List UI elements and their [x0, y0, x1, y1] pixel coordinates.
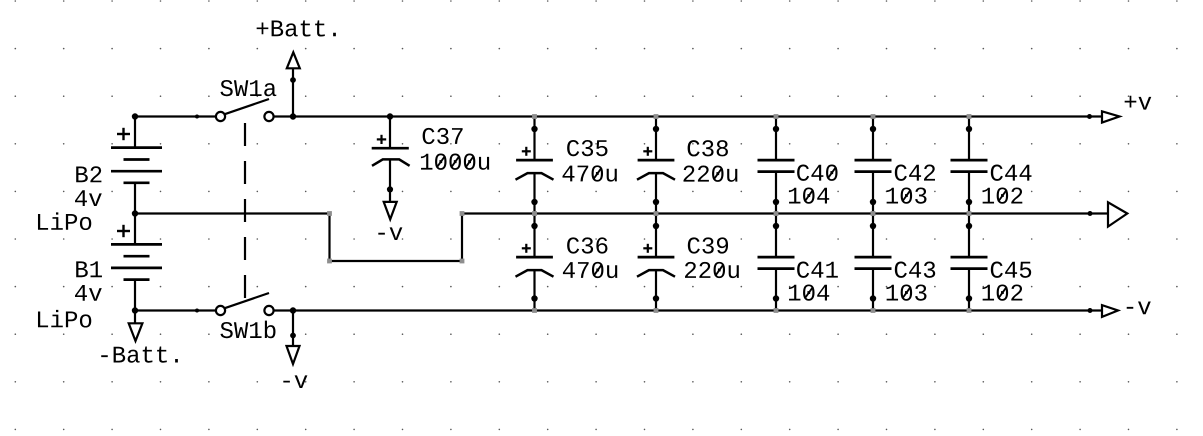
junction -v stub / bottom rail	[290, 307, 296, 313]
label C43	[895, 262, 935, 278]
label 4v (B2)	[75, 190, 102, 206]
junction battery B1 bottom corner	[132, 307, 138, 313]
pin dot C41 top	[773, 223, 779, 229]
value 104 (C40)	[789, 187, 829, 203]
pin dot C45 bottom	[966, 295, 972, 301]
node square C35 top rail	[532, 114, 537, 119]
label C39	[688, 237, 728, 253]
value 1000u	[421, 154, 489, 170]
pin dot C45 top	[966, 223, 972, 229]
node square col C35 mid rail	[532, 211, 537, 216]
label C42	[895, 165, 935, 181]
pin dot C38 bottom	[653, 199, 659, 205]
pin dot C39 bottom	[653, 295, 659, 301]
node square col C38 mid rail	[654, 211, 659, 216]
pin dot C40 top	[773, 126, 779, 132]
value 103 (C43)	[887, 284, 927, 300]
label C36	[567, 237, 607, 253]
label LiPo (B1)	[38, 310, 91, 328]
label C35	[567, 140, 607, 156]
port -v output arrow	[1102, 305, 1118, 317]
node square C39 bottom rail	[654, 308, 659, 313]
capacitor C36	[516, 214, 554, 311]
pin dot C41 bottom	[773, 295, 779, 301]
pin dot C42 top	[870, 126, 876, 132]
pin dot C35 top	[531, 126, 537, 132]
switch SW1b	[216, 293, 274, 315]
label -Batt.	[101, 347, 178, 363]
node square C45 bottom rail	[967, 308, 972, 313]
node dot bottom rail x197	[195, 309, 199, 313]
switch SW1a	[216, 99, 274, 121]
node dot on +Batt stub	[290, 77, 296, 83]
label -v (output)	[1127, 302, 1151, 315]
node square jog corner NE	[460, 211, 465, 216]
label SW1a	[220, 80, 276, 96]
pin dot C36 top	[531, 223, 537, 229]
battery B1	[111, 214, 162, 311]
node square C44 top rail	[967, 114, 972, 119]
pin dot C43 bottom	[870, 295, 876, 301]
label C45	[991, 262, 1031, 278]
wire: bottom rail left segment (battery B1 - to SW1b)	[135, 309, 216, 311]
capacitor C35	[516, 117, 554, 214]
label C44	[991, 165, 1032, 181]
node dot bottom rail output	[1088, 308, 1093, 313]
pin dot C44 bottom	[966, 199, 972, 205]
junction mid rail / batteries	[132, 210, 138, 216]
value 470u (C35)	[563, 165, 617, 181]
value 103 (C42)	[887, 187, 927, 203]
node dot top rail x197	[195, 115, 199, 119]
wire: -v stub (SW1b side)	[292, 311, 294, 347]
pin dot C44 top	[966, 126, 972, 132]
wire: top rail left segment (battery B2 + to SW1a)	[135, 115, 216, 117]
node square jog corner SE	[460, 259, 465, 264]
label 4v (B1)	[75, 285, 102, 301]
label C37	[423, 128, 463, 144]
value 104 (C41)	[789, 284, 829, 300]
port -Batt arrow	[129, 323, 143, 341]
port -v arrow (SW1b side)	[287, 346, 300, 364]
node square jog corner NW	[327, 211, 332, 216]
capacitor C39	[637, 214, 675, 311]
junction +Batt stub / top rail	[290, 113, 296, 119]
wire: top rail +v bus (SW1a to +v output)	[274, 115, 1103, 117]
label +v	[1125, 96, 1152, 110]
node dot top rail output	[1087, 114, 1092, 119]
battery B2	[111, 117, 162, 214]
node square C36 bottom rail	[532, 308, 537, 313]
node square C40 top rail	[774, 114, 779, 119]
capacitor C37	[372, 117, 410, 202]
node dot mid rail output	[1088, 211, 1093, 216]
node square col C40 mid rail	[774, 211, 779, 216]
port +Batt arrow	[287, 52, 300, 68]
value 102 (C45)	[983, 284, 1023, 300]
label C38	[688, 140, 728, 156]
node square C43 bottom rail	[871, 308, 876, 313]
pin dot C42 bottom	[870, 199, 876, 205]
port +v output arrow	[1102, 111, 1120, 122]
node square col C44 mid rail	[967, 211, 972, 216]
pin dot C40 bottom	[773, 199, 779, 205]
wire: mid rail common bus with jog	[135, 214, 1108, 262]
label C41	[797, 262, 838, 278]
node square C42 top rail	[871, 114, 876, 119]
port -v arrow (C37)	[384, 202, 397, 219]
capacitor C38	[637, 117, 675, 214]
capacitor C43	[855, 214, 892, 311]
label C40	[797, 165, 837, 181]
node square C38 top rail	[654, 114, 659, 119]
wire: +Batt stub	[292, 68, 294, 116]
junction C37 / top rail	[387, 113, 393, 119]
value 102 (C44)	[983, 187, 1023, 203]
wire: -Batt stub	[134, 311, 136, 324]
label SW1b	[220, 321, 275, 339]
capacitor C40	[758, 117, 795, 214]
pin dot C39 top	[653, 223, 659, 229]
node square col C42 mid rail	[871, 211, 876, 216]
value 220u (C39)	[685, 262, 739, 278]
value 470u (C36)	[563, 262, 617, 278]
capacitor C45	[951, 214, 988, 311]
value 220u (C38)	[683, 166, 737, 182]
capacitor C41	[758, 214, 795, 311]
pin dot C36 bottom	[531, 295, 537, 301]
port common output arrow	[1108, 202, 1127, 226]
node dot C37 lower pin	[387, 186, 393, 192]
capacitor C42	[855, 117, 892, 214]
label B2	[76, 166, 101, 182]
label -v (C37)	[378, 227, 402, 240]
wire: bottom rail -v bus (SW1b to -v output)	[274, 309, 1103, 311]
pin dot C38 top	[653, 126, 659, 132]
junction battery B2 top corner	[132, 113, 138, 119]
node square jog corner SW	[327, 259, 332, 264]
label -v (SW1b side)	[283, 375, 307, 388]
label +Batt.	[257, 20, 336, 36]
pin dot C35 bottom	[531, 199, 537, 205]
node square C41 bottom rail	[774, 308, 779, 313]
node dot on -v stub	[290, 333, 296, 339]
label B1	[76, 261, 102, 277]
pin dot C43 top	[870, 223, 876, 229]
wire: dashed gang link SW1a-SW1b	[244, 123, 246, 298]
label LiPo (B2)	[38, 212, 91, 230]
capacitor C44	[951, 117, 988, 214]
